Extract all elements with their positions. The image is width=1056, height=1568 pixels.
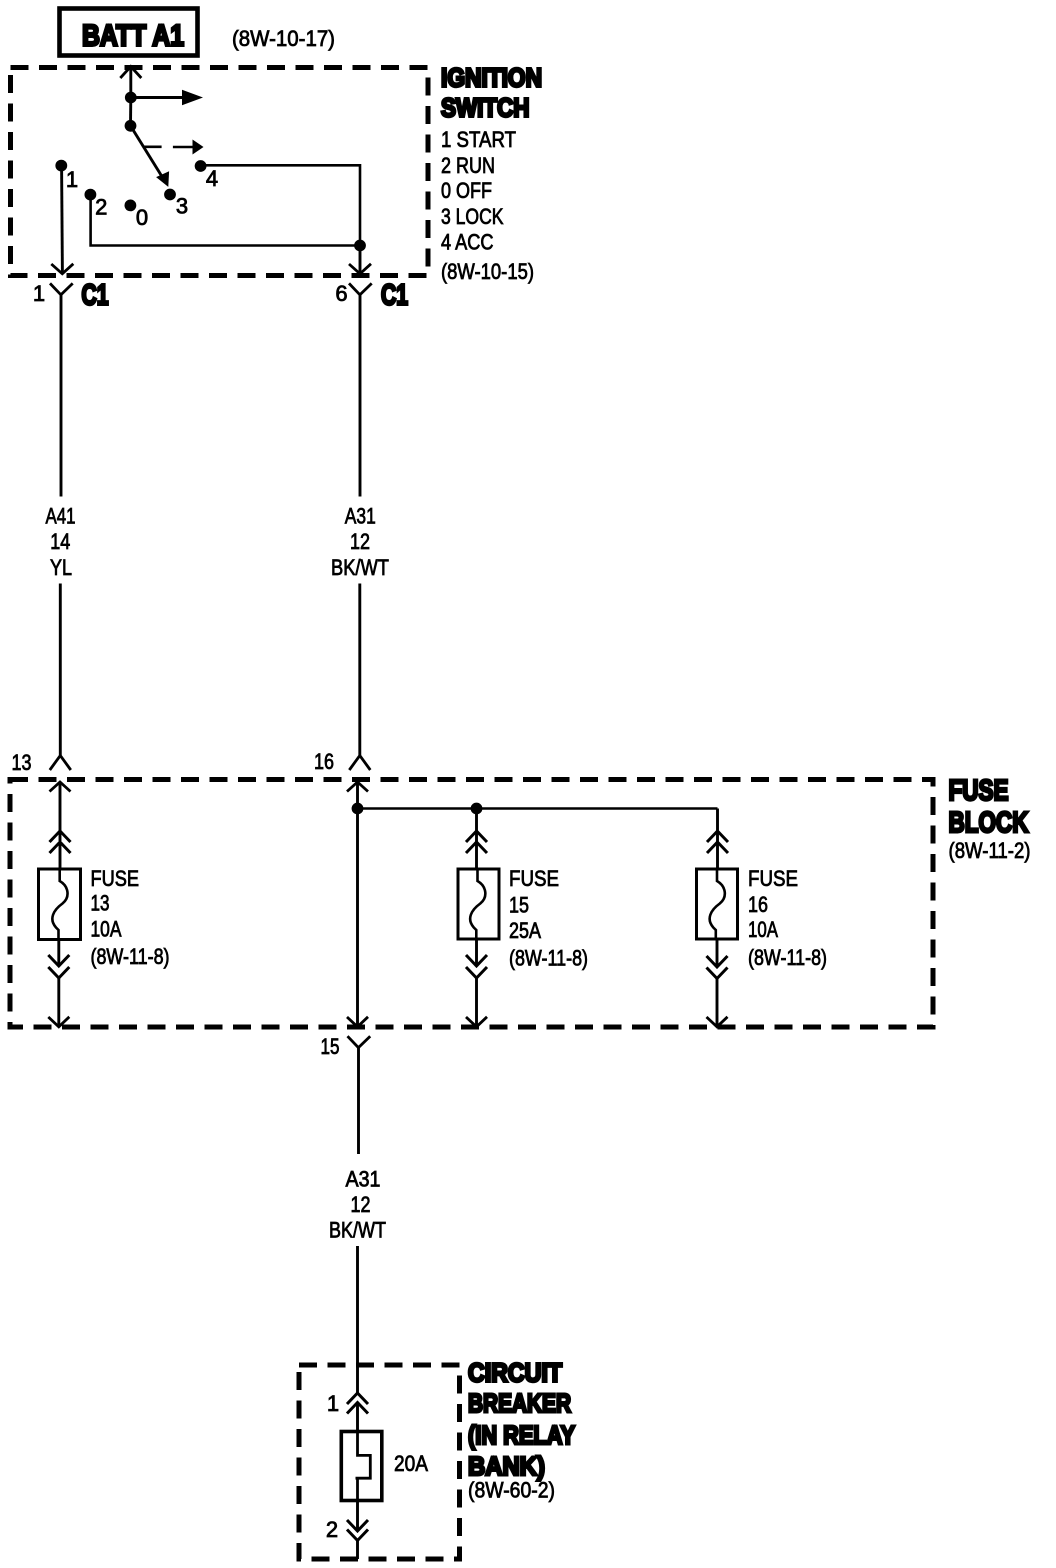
fuse 15 body (458, 869, 499, 939)
svg-text:15: 15 (509, 893, 529, 918)
fuse 16 body (697, 869, 738, 939)
arrow: feed direction right (131, 96, 183, 99)
svg-text:16: 16 (748, 892, 768, 917)
wire A31 below fuse block (357, 1080, 360, 1154)
connector pin 15 (Y) (348, 1036, 371, 1047)
svg-text:0: 0 (136, 205, 148, 230)
svg-text:12: 12 (350, 529, 370, 554)
fuse 13 element (squiggle) (52, 869, 67, 940)
svg-text:20A: 20A (394, 1451, 428, 1476)
wire A31 into breaker box (356, 1246, 359, 1393)
wire pin13 to chevrons (59, 782, 62, 841)
exit arrowhead fuse 16 (707, 1017, 728, 1027)
svg-text:13: 13 (12, 750, 32, 775)
exit arrowhead fuse 13 (48, 1017, 69, 1027)
svg-text:13: 13 (91, 891, 110, 916)
wire: battery feed into switch (arrow up) (120, 67, 141, 79)
svg-text:A41: A41 (46, 504, 76, 529)
wire: junction to pin 6 (359, 246, 362, 273)
svg-text:25A: 25A (509, 918, 541, 943)
svg-text:3: 3 (176, 194, 188, 219)
wire branch to fuse 15 (475, 809, 478, 844)
svg-text:BREAKER: BREAKER (468, 1388, 571, 1418)
contact dot 4 (195, 160, 207, 172)
wire to fuse 15 (475, 842, 478, 869)
wire pin16 down to junction (356, 782, 359, 809)
connector chevrons breaker top (347, 1393, 368, 1404)
connector chevrons fuse 15 top (466, 831, 487, 842)
svg-text:A31: A31 (345, 504, 376, 529)
circuit breaker CB1 body (341, 1432, 382, 1501)
svg-text:15: 15 (321, 1034, 340, 1059)
arrowhead at box edge (pin 6) (349, 264, 371, 274)
connector C1 pin 1 (Y) (50, 283, 73, 294)
wire below fuse 15 (475, 939, 478, 966)
svg-text:(8W-10-15): (8W-10-15) (441, 259, 534, 284)
svg-text:A31: A31 (346, 1167, 381, 1192)
svg-text:1: 1 (33, 281, 45, 306)
svg-text:YL: YL (50, 555, 72, 580)
ignition switch dashed box (11, 68, 429, 276)
svg-text:(8W-11-8): (8W-11-8) (748, 945, 827, 970)
svg-text:FUSE: FUSE (509, 866, 559, 891)
svg-text:C1: C1 (381, 280, 408, 312)
wire to box edge (356, 1541, 359, 1560)
svg-text:4 ACC: 4 ACC (441, 230, 494, 255)
svg-text:2 RUN: 2 RUN (441, 153, 495, 178)
svg-text:1 START: 1 START (441, 127, 516, 152)
exit arrowhead fuse 15 (466, 1017, 487, 1027)
wire A31 upper (359, 330, 362, 497)
svg-text:FUSE: FUSE (748, 866, 798, 891)
connector half at fuse block pin 16 (349, 756, 370, 771)
contact dot 0 (124, 200, 136, 212)
fuse 15 element (squiggle) (470, 869, 485, 939)
connector chevrons fuse 16 top (707, 831, 728, 842)
connector chevrons fuse 13 top (50, 831, 71, 842)
wire: contact 4 right and down to junction (203, 165, 360, 245)
svg-text:3 LOCK: 3 LOCK (441, 204, 504, 229)
wire to exit pin (57, 978, 60, 1027)
svg-text:FUSE: FUSE (949, 775, 1009, 807)
fuse 16 element (squiggle) (710, 869, 725, 939)
svg-text:(8W-60-2): (8W-60-2) (468, 1478, 555, 1503)
node: wiper pivot dot (125, 120, 137, 132)
svg-text:1: 1 (327, 1391, 339, 1416)
wire: contact 1 to pin 1 (60, 168, 64, 272)
wire below fuse 13 (57, 940, 60, 966)
svg-text:6: 6 (335, 281, 347, 306)
wire A31 lower (358, 584, 361, 756)
connector C1 pin 6 (Y) (349, 283, 372, 294)
svg-text:(8W-11-2): (8W-11-2) (949, 838, 1031, 863)
battery feed box BATT A1 (60, 9, 198, 56)
svg-text:4: 4 (206, 166, 218, 191)
node: bus junction dot B (471, 803, 483, 815)
svg-text:10A: 10A (748, 917, 778, 942)
svg-text:SWITCH: SWITCH (441, 93, 530, 123)
svg-text:BK/WT: BK/WT (329, 1218, 386, 1243)
wire to breaker (356, 1403, 359, 1432)
arrow: wiper motion right (173, 146, 193, 149)
svg-text:BLOCK: BLOCK (949, 807, 1029, 839)
wire below fuse 16 (716, 939, 719, 967)
pin 13 entry arrowhead (50, 782, 71, 792)
contact dot 2 (85, 189, 97, 201)
connector chevrons fuse 13 bottom (48, 955, 69, 966)
wire to exit pin (fuse 15) (475, 978, 478, 1027)
wire A41 upper (60, 330, 63, 497)
fuse block dashed box (10, 780, 933, 1028)
svg-text:1: 1 (66, 167, 78, 192)
node: bus junction dot A (352, 803, 364, 815)
wire pin16 feed-through to pin 15 (356, 809, 359, 1027)
svg-text:(IN RELAY: (IN RELAY (468, 1420, 575, 1450)
pin 16 entry arrowhead (347, 782, 368, 792)
wire to fuse 16 (716, 842, 719, 869)
svg-text:12: 12 (351, 1192, 371, 1217)
connector chevrons fuse 15 bottom (466, 955, 487, 966)
contact dot 1 (55, 160, 67, 172)
wire: feed to wiper pivot (129, 98, 132, 126)
circuit breaker dashed box (299, 1365, 460, 1559)
svg-text:16: 16 (314, 749, 334, 774)
svg-text:BANK): BANK) (468, 1451, 545, 1481)
wire: contact 2 down and right (91, 197, 360, 246)
svg-text:(8W-11-8): (8W-11-8) (91, 944, 170, 969)
wire to exit pin (fuse 16) (716, 979, 719, 1027)
connector chevrons breaker bottom (347, 1520, 368, 1531)
node: junction dot pin 6 (354, 240, 366, 252)
svg-text:(8W-11-8): (8W-11-8) (509, 946, 588, 971)
circuit breaker element (step) (356, 1432, 371, 1501)
svg-text:BK/WT: BK/WT (331, 555, 389, 580)
contact dot 3 (164, 189, 176, 201)
svg-text:(8W-10-17): (8W-10-17) (232, 26, 335, 51)
connector half at fuse block pin 13 (50, 756, 71, 771)
wire below breaker (356, 1501, 359, 1532)
svg-text:2: 2 (326, 1517, 338, 1542)
svg-text:BATT A1: BATT A1 (82, 20, 184, 53)
svg-text:2: 2 (95, 195, 107, 220)
switch wiper arm (diagonal with arrowhead) (131, 126, 164, 179)
node: switch feed junction dot (125, 92, 137, 104)
wiper position tick (143, 146, 162, 149)
svg-text:0 OFF: 0 OFF (441, 178, 492, 203)
arrowhead at box edge (pin 1) (51, 264, 73, 274)
svg-text:CIRCUIT: CIRCUIT (468, 1358, 562, 1388)
svg-text:C1: C1 (82, 280, 109, 312)
fuse 13 body (39, 869, 81, 940)
wire to fuse 13 (59, 842, 62, 869)
svg-text:IGNITION: IGNITION (441, 63, 542, 93)
svg-text:10A: 10A (91, 917, 122, 942)
svg-text:FUSE: FUSE (91, 866, 140, 891)
svg-text:14: 14 (50, 529, 70, 554)
exit arrowhead pin 15 (347, 1017, 368, 1027)
bus wire horizontal (358, 807, 718, 810)
wire branch to fuse 16 (716, 809, 719, 844)
connector chevrons fuse 16 bottom (707, 956, 728, 967)
wire A41 lower (59, 584, 62, 756)
